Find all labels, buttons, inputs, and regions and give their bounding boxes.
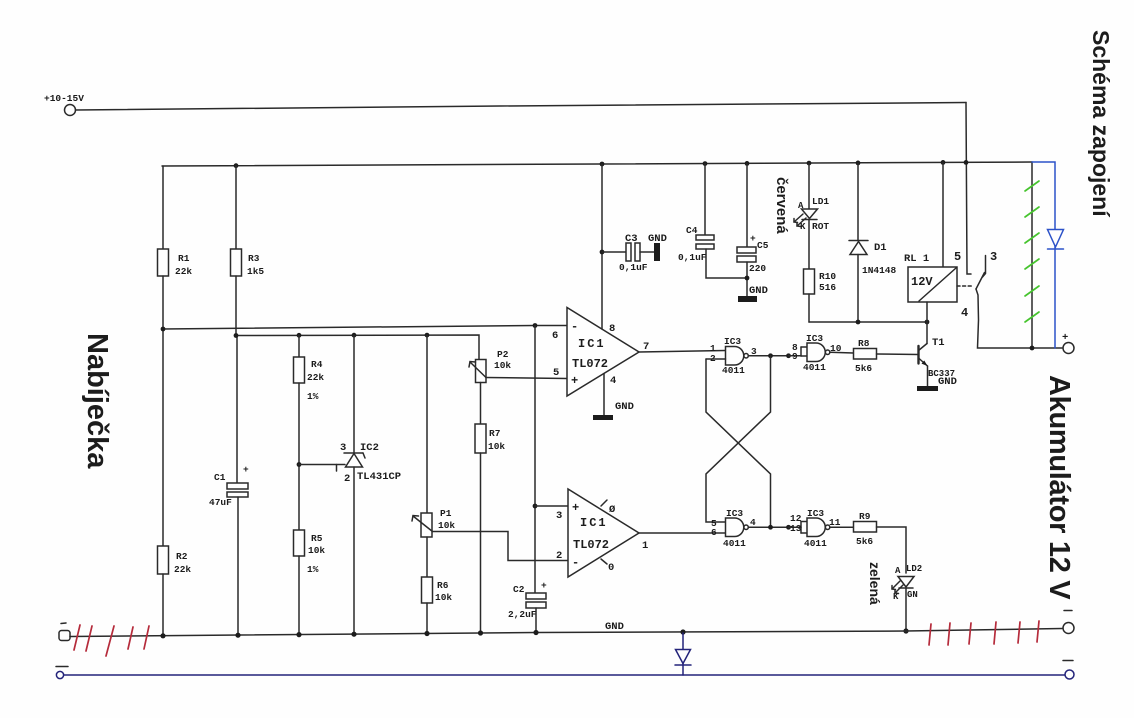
wire LD1 to R10: [808, 220, 810, 270]
wire IC2 cathode: [353, 335, 355, 453]
transistor T1 BC337: [917, 346, 919, 364]
svg-text:P2: P2: [497, 349, 509, 360]
wire supply drop to switch common 5: [966, 103, 971, 275]
svg-text:8: 8: [609, 323, 615, 335]
wire gate1 pin2 stub: [706, 358, 726, 360]
svg-text:10k: 10k: [308, 545, 325, 556]
wire P1 wiper to op-amp pin 2: [433, 532, 569, 561]
svg-text:GND: GND: [749, 285, 768, 297]
wire op-amp2 pin3 stub: [535, 505, 568, 507]
svg-text:LD1: LD1: [812, 196, 829, 207]
svg-text:4: 4: [961, 306, 968, 320]
wire R8 to T1 base: [877, 353, 919, 356]
svg-text:A: A: [895, 566, 901, 576]
svg-text:R5: R5: [311, 533, 323, 544]
svg-text:4011: 4011: [803, 362, 826, 373]
wire R4 to R5: [298, 383, 300, 530]
wire gate1 output: [748, 355, 788, 357]
svg-text:GND: GND: [615, 401, 634, 413]
pin 8 wire: [601, 164, 603, 329]
svg-text:R10: R10: [819, 271, 836, 282]
wire R1 top: [162, 166, 164, 249]
resistor R5: [294, 530, 305, 556]
capacitor C3: [602, 251, 626, 253]
nand gate IC3a 4011: [726, 347, 744, 366]
svg-text:C5: C5: [757, 240, 769, 251]
svg-text:+: +: [571, 374, 578, 388]
ground bar C3: [654, 243, 660, 261]
svg-text:10k: 10k: [438, 520, 455, 531]
svg-text:R2: R2: [176, 551, 188, 562]
hatch marks red left: [74, 625, 149, 656]
svg-text:0,1uF: 0,1uF: [619, 262, 648, 273]
wire R5 bottom: [298, 556, 300, 635]
svg-text:9: 9: [792, 351, 798, 362]
relay RL1 12V: [908, 267, 957, 302]
terminal +10-15V: [65, 105, 76, 116]
svg-text:R1: R1: [178, 253, 190, 264]
wire relay actuator dashed: [957, 285, 973, 287]
wire C1 top: [236, 336, 238, 484]
svg-text:RL 1: RL 1: [904, 253, 929, 265]
hatch marks red right: [929, 621, 1039, 645]
svg-text:C2: C2: [513, 584, 525, 595]
node bus B junctions: [234, 333, 430, 338]
wire relay coil bottom: [926, 302, 928, 322]
svg-text:516: 516: [819, 282, 836, 293]
nand gate IC3b 4011: [789, 355, 802, 357]
svg-text:22k: 22k: [175, 266, 192, 277]
svg-text:Ø: Ø: [609, 504, 616, 516]
op-amp IC1a TL072: [567, 308, 639, 397]
svg-text:1%: 1%: [307, 564, 319, 575]
svg-text:6: 6: [552, 330, 558, 342]
svg-text:R8: R8: [858, 338, 870, 349]
nand gate IC3c 4011: [726, 518, 744, 537]
capacitor C2: [526, 593, 546, 599]
led LD2 green: [898, 577, 914, 588]
svg-text:2,2uF: 2,2uF: [508, 609, 537, 620]
wire P2 to R7: [480, 383, 482, 425]
svg-text:4: 4: [750, 517, 756, 528]
svg-text:1: 1: [642, 540, 648, 552]
svg-text:K: K: [800, 222, 806, 232]
svg-text:5: 5: [553, 367, 559, 379]
nand gate IC3d 4011: [789, 526, 802, 528]
svg-text:10k: 10k: [488, 441, 505, 452]
svg-text:2: 2: [344, 473, 350, 485]
node IC2 ref junction: [297, 462, 302, 467]
wire blue battery branch: [1032, 162, 1064, 348]
wire latch feedback Qbar to gate1 pin2: [706, 359, 771, 527]
svg-text:4011: 4011: [723, 538, 746, 549]
pin 8 tick label: [601, 500, 607, 506]
wire top supply bus: [162, 162, 1032, 166]
wire relay coil top: [942, 162, 944, 267]
node C4-C5 junction: [745, 276, 750, 281]
svg-text:1k5: 1k5: [247, 266, 264, 277]
svg-text:220: 220: [749, 263, 766, 274]
node relay/collector: [925, 320, 930, 325]
svg-text:A: A: [798, 201, 804, 211]
wire C5 bottom: [746, 262, 748, 296]
wire op-amp feed vertical: [534, 326, 536, 594]
wire C2 bottom: [535, 608, 537, 632]
wire gate2 output: [830, 351, 854, 354]
resistor R9: [854, 522, 877, 533]
pin 4 tick label: [601, 559, 607, 564]
wire C1 bottom: [237, 497, 239, 636]
svg-text:5: 5: [954, 250, 961, 264]
svg-text:ROT: ROT: [812, 221, 829, 232]
svg-text:22k: 22k: [307, 372, 324, 383]
wire R2 bottom: [162, 574, 164, 636]
resistor R10: [804, 269, 815, 294]
svg-text:zelená: zelená: [867, 562, 883, 605]
hatch marks green: [1025, 181, 1039, 322]
svg-text:11: 11: [829, 517, 841, 528]
pin 4 wire: [603, 374, 605, 416]
wire R6 bottom: [426, 603, 428, 634]
svg-text:TL072: TL072: [573, 538, 609, 552]
svg-text:T1: T1: [932, 337, 945, 349]
svg-text:5k6: 5k6: [856, 536, 873, 547]
svg-text:IC3: IC3: [724, 336, 741, 347]
node gate2 input junction: [786, 353, 791, 358]
wire C4 bottom: [706, 249, 747, 278]
svg-text:GN: GN: [907, 590, 918, 600]
ground bar op-amp1: [593, 415, 613, 420]
svg-text:P1: P1: [440, 508, 452, 519]
svg-text:TL431CP: TL431CP: [357, 471, 401, 483]
wire IC2 anode: [353, 467, 355, 634]
svg-text:+: +: [541, 580, 547, 591]
svg-text:12V: 12V: [911, 275, 933, 289]
node D1 bottom: [856, 320, 861, 325]
svg-text:R7: R7: [489, 428, 501, 439]
wire blue minus line: [56, 670, 1074, 679]
node bottom bus junctions: [160, 629, 685, 638]
svg-text:Schéma zapojení: Schéma zapojení: [1088, 30, 1114, 218]
resistor R2: [158, 546, 169, 574]
ground bar T1: [917, 386, 938, 391]
node gate4 input junction: [786, 525, 791, 530]
svg-text:IC1: IC1: [578, 337, 606, 351]
resistor R4: [294, 357, 305, 383]
svg-text:-: -: [571, 320, 578, 334]
resistor R8: [854, 349, 877, 360]
svg-text:IC3: IC3: [726, 508, 743, 519]
svg-text:22k: 22k: [174, 564, 191, 575]
wire bus B (divider rail): [236, 335, 479, 360]
wire P1 top: [426, 335, 428, 513]
wire IC2 ref: [299, 464, 345, 466]
svg-text:0,1uF: 0,1uF: [678, 252, 707, 263]
node LD2 bus junction: [903, 628, 908, 633]
tick minus left: [56, 666, 68, 668]
svg-text:4: 4: [610, 375, 616, 387]
svg-text:R3: R3: [248, 253, 260, 264]
svg-text:4011: 4011: [722, 365, 745, 376]
svg-text:+10-15V: +10-15V: [44, 93, 84, 104]
resistor R1: [158, 249, 169, 276]
svg-text:červená: červená: [773, 177, 790, 234]
resistor R6: [422, 577, 433, 603]
svg-text:10k: 10k: [435, 592, 452, 603]
svg-text:IC3: IC3: [807, 508, 824, 519]
svg-text:10k: 10k: [494, 360, 511, 371]
svg-text:2: 2: [556, 550, 562, 562]
svg-text:4011: 4011: [804, 538, 827, 549]
tick minus right: [1063, 660, 1073, 662]
svg-text:D1: D1: [874, 242, 887, 254]
wire R1 bottom to bus A: [162, 276, 164, 329]
diode D1 1N4148: [857, 163, 859, 241]
svg-text:R4: R4: [311, 359, 323, 370]
wire P1 to R6: [426, 537, 428, 577]
pin 1 output wire: [639, 532, 726, 534]
svg-text:K: K: [893, 592, 899, 602]
wire flyback rail: [809, 321, 927, 323]
svg-text:+: +: [243, 464, 249, 475]
svg-text:Akumulátor 12 V: Akumulátor 12 V: [1043, 375, 1075, 600]
svg-text:R9: R9: [859, 511, 871, 522]
node C3 tap: [600, 250, 605, 255]
svg-text:C4: C4: [686, 225, 698, 236]
svg-text:3: 3: [990, 250, 997, 264]
svg-text:+: +: [750, 233, 756, 244]
wire R9 to LD2: [877, 527, 907, 573]
svg-text:6: 6: [711, 527, 717, 538]
svg-text:GND: GND: [938, 376, 957, 388]
svg-text:IC3: IC3: [806, 333, 823, 344]
svg-text:0: 0: [608, 562, 614, 574]
wire hatched battery line: [1031, 162, 1033, 348]
node op-amp2 pin3 junction: [533, 504, 538, 509]
op-amp IC1b TL072: [568, 489, 639, 577]
svg-text:IC1: IC1: [580, 516, 608, 530]
wire gate4 output: [830, 526, 854, 528]
node latch Q: [768, 353, 773, 358]
node battery junction: [1030, 346, 1035, 351]
node top bus junctions: [234, 160, 969, 168]
resistor R7: [475, 424, 486, 453]
wire switch to battery plus: [976, 289, 1062, 348]
resistor R3: [231, 249, 242, 276]
node latch Qbar: [768, 525, 773, 530]
svg-text:+: +: [1062, 332, 1068, 344]
wire LD2 bottom: [905, 588, 907, 631]
terminal charger minus: [59, 631, 70, 641]
led LD1 red: [808, 163, 810, 209]
svg-text:5k6: 5k6: [855, 363, 872, 374]
pin 7 output wire: [639, 351, 726, 353]
svg-text:-: -: [572, 556, 579, 570]
svg-text:3: 3: [556, 510, 562, 522]
wire bus A (to op-amp pin 6): [162, 326, 567, 330]
svg-text:TL072: TL072: [572, 357, 608, 371]
switch blade: [976, 273, 985, 290]
shunt regulator IC2 TL431CP: [344, 452, 363, 454]
wire P2 wiper to op-amp pin 5: [486, 378, 567, 379]
svg-text:C3: C3: [625, 233, 638, 245]
wire R10 bottom: [808, 294, 810, 322]
diode blue battery: [1048, 230, 1064, 248]
svg-text:13: 13: [790, 523, 802, 534]
svg-text:Nabíječka: Nabíječka: [81, 333, 113, 469]
potentiometer P2: [476, 360, 487, 383]
svg-text:47uF: 47uF: [209, 497, 232, 508]
svg-text:R6: R6: [437, 580, 449, 591]
wire R4 top: [298, 335, 300, 357]
svg-text:3: 3: [340, 442, 346, 454]
potentiometer P1: [421, 513, 432, 537]
node bus A op-amp branch: [533, 323, 538, 328]
wire R3 top: [235, 166, 237, 249]
wire bottom ground bus: [70, 629, 1062, 637]
svg-text:GND: GND: [648, 233, 667, 245]
svg-text:1%: 1%: [307, 391, 319, 402]
svg-text:C1: C1: [214, 472, 226, 483]
svg-text:IC2: IC2: [360, 442, 379, 454]
wire supply feed: [76, 103, 967, 111]
svg-text:7: 7: [643, 341, 649, 353]
wire gate3 output: [748, 526, 788, 528]
svg-text:+: +: [572, 501, 579, 515]
capacitor C1: [227, 483, 248, 489]
terminal battery minus: [1063, 623, 1074, 634]
capacitor C4: [704, 164, 706, 235]
wire R3 bottom to bus B: [235, 276, 237, 336]
wire left rail down: [162, 329, 164, 546]
terminal battery plus: [1063, 343, 1074, 354]
svg-text:GND: GND: [605, 621, 624, 633]
svg-text:LD2: LD2: [906, 564, 922, 574]
wire latch feedback Q to gate3 pin5: [706, 356, 771, 522]
wire R7 bottom: [480, 453, 482, 633]
ground bar C5: [738, 296, 757, 302]
diode bottom reverse protection: [675, 633, 691, 675]
capacitor C5: [746, 163, 748, 247]
svg-text:1N4148: 1N4148: [862, 265, 897, 276]
node bus A left: [161, 327, 166, 332]
